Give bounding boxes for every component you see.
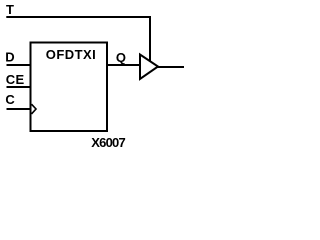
svg-text:X6007: X6007 bbox=[91, 135, 125, 150]
svg-text:OFDTXI: OFDTXI bbox=[46, 47, 96, 62]
label D (data input pin) bbox=[5, 49, 14, 64]
wire D input bbox=[7, 64, 31, 66]
wire Q: box to buffer input bbox=[107, 64, 140, 66]
label X6007 (figure number) bbox=[91, 135, 125, 150]
clock chevron on C pin bbox=[32, 104, 37, 114]
label Q (output pin) bbox=[116, 50, 126, 65]
label OFDTXI bbox=[46, 47, 96, 62]
label C (clock pin) bbox=[5, 92, 15, 107]
tristate buffer (output triangle) bbox=[140, 55, 158, 80]
svg-text:Q: Q bbox=[116, 50, 126, 65]
label T (tristate control input) bbox=[6, 2, 14, 17]
wire output: buffer tip to pad bbox=[157, 66, 184, 68]
wire C input bbox=[7, 108, 31, 110]
wire CE input bbox=[7, 86, 31, 88]
flip-flop U1 body (OFDTXI block) bbox=[31, 43, 108, 132]
wire T net: horizontal run then drop to buffer top edge bbox=[6, 16, 150, 62]
svg-text:CE: CE bbox=[6, 72, 25, 87]
svg-text:C: C bbox=[5, 92, 15, 107]
svg-text:T: T bbox=[6, 2, 14, 17]
label CE (clock enable pin) bbox=[6, 72, 25, 87]
svg-text:D: D bbox=[5, 49, 14, 64]
